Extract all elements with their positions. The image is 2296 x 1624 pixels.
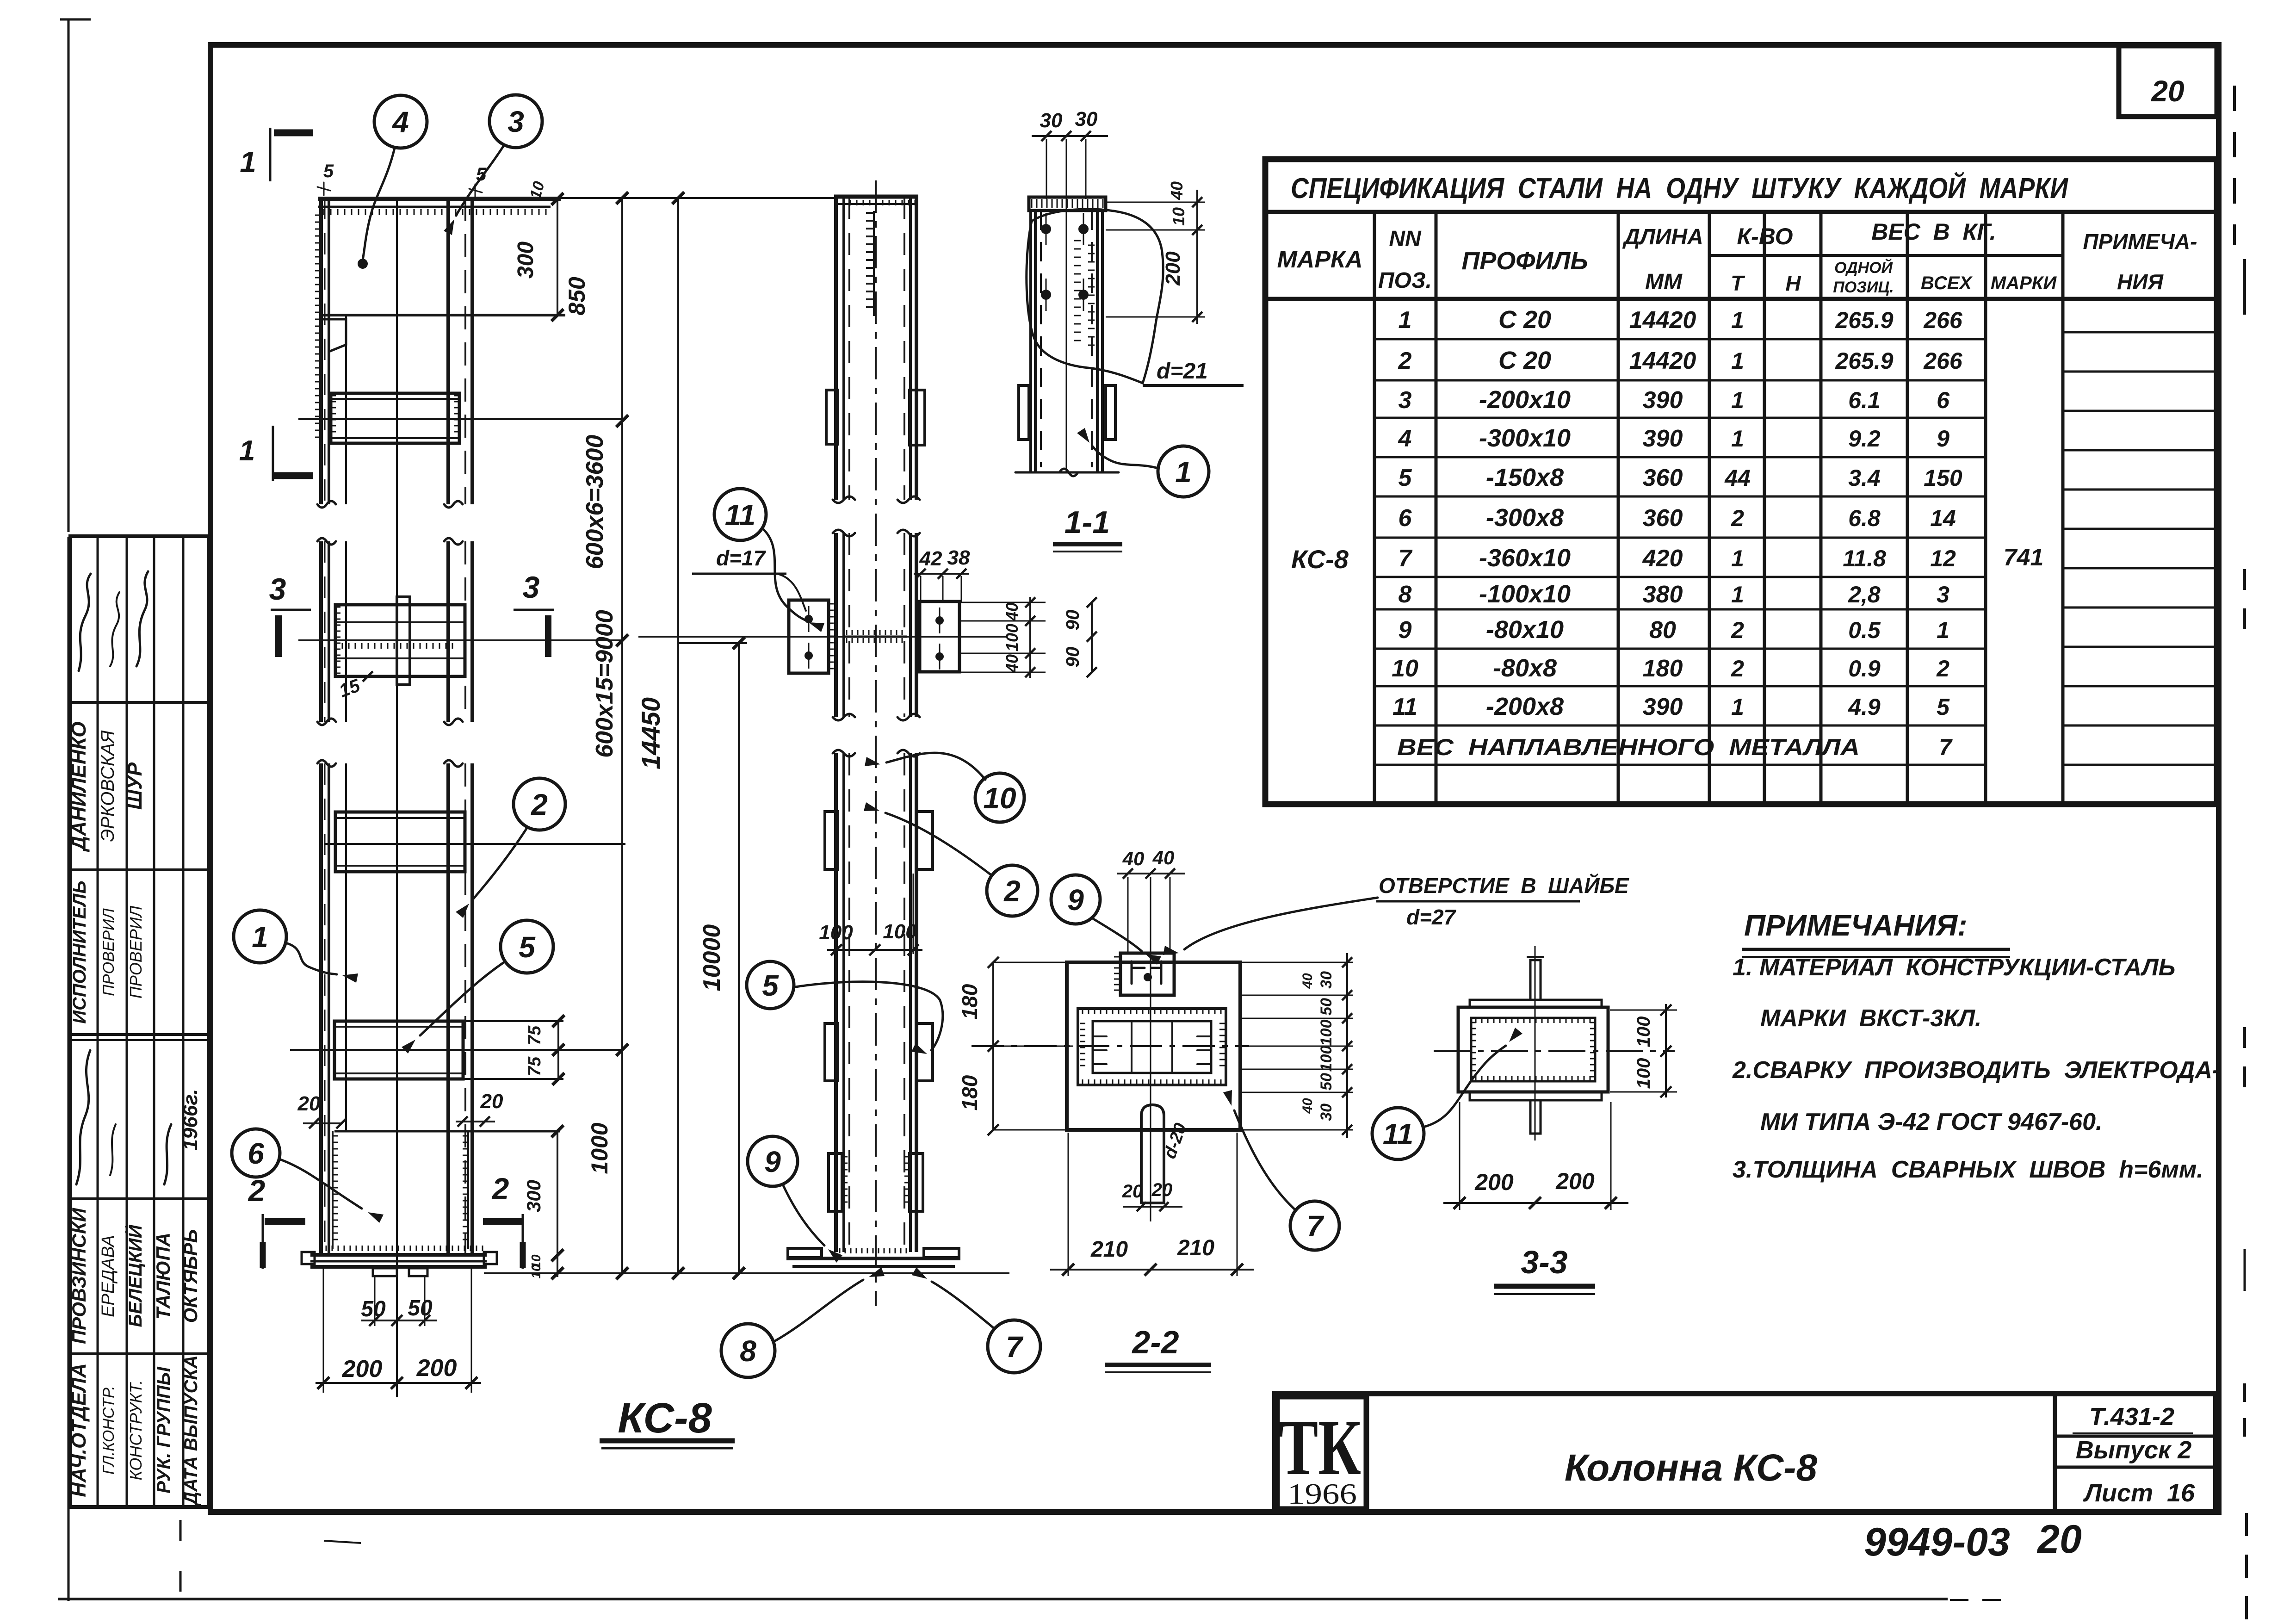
section 2-2 dimension 180 180	[958, 957, 1073, 1135]
leader 9 base	[783, 1184, 824, 1246]
svg-text:30: 30	[1040, 109, 1063, 132]
svg-text:1: 1	[252, 920, 268, 954]
leader 4	[363, 148, 395, 260]
svg-text:-100х10: -100х10	[1479, 580, 1571, 608]
svg-text:5: 5	[1399, 465, 1412, 491]
svg-text:ОТВЕРСТИЕ В ШАЙБЕ: ОТВЕРСТИЕ В ШАЙБЕ	[1379, 874, 1629, 898]
section 2-2 right dimension chain	[1242, 953, 1353, 1138]
svg-text:-360х10: -360х10	[1479, 544, 1571, 572]
svg-text:100: 100	[1634, 1017, 1654, 1048]
svg-text:1: 1	[1399, 307, 1412, 334]
svg-text:200: 200	[416, 1355, 457, 1382]
svg-text:30: 30	[1075, 108, 1098, 130]
svg-text:6.8: 6.8	[1848, 505, 1881, 531]
svg-text:МАРКИ: МАРКИ	[1991, 273, 2057, 293]
callout circle 7 (base)	[988, 1320, 1040, 1373]
section mark 2 left	[248, 1173, 305, 1269]
cap plate thickness 10	[526, 180, 548, 201]
svg-text:ДАНИЛЕНКО: ДАНИЛЕНКО	[68, 721, 90, 852]
dimension 42 38	[914, 546, 970, 602]
svg-text:К-ВО: К-ВО	[1737, 223, 1793, 249]
svg-text:180: 180	[1643, 655, 1683, 682]
leader 1	[286, 943, 337, 974]
drawing frame border	[210, 45, 2219, 1512]
svg-text:d=27: d=27	[1406, 905, 1457, 929]
section 1-1 weld blob outline	[1027, 209, 1163, 383]
svg-text:2: 2	[1731, 505, 1744, 531]
section 3-3 dimension 100 100	[1610, 1004, 1677, 1097]
callout circle 11	[714, 489, 766, 540]
svg-text:1: 1	[239, 435, 255, 467]
left elevation splice assembly A	[298, 393, 622, 443]
svg-text:5: 5	[762, 969, 779, 1002]
middle elevation base plate	[786, 1248, 960, 1266]
left elevation stiffener assembly D	[290, 1021, 622, 1079]
svg-text:1966: 1966	[1287, 1477, 1357, 1510]
svg-text:2-2: 2-2	[1131, 1324, 1179, 1360]
callout circle 2 (middle)	[987, 865, 1038, 916]
label Отверстие в шайбе d=27	[1163, 874, 1629, 955]
svg-text:1: 1	[1731, 426, 1744, 452]
callout circle 10	[975, 773, 1024, 822]
svg-text:2: 2	[1936, 656, 1949, 682]
svg-text:-200х10: -200х10	[1479, 386, 1571, 414]
weld size labels 5 at cap	[317, 161, 487, 197]
svg-text:2: 2	[1731, 617, 1744, 643]
title block grid	[1275, 1394, 2216, 1512]
svg-text:40: 40	[1167, 181, 1186, 200]
section 2-2 anchor slot	[1141, 1105, 1191, 1203]
svg-text:-300х8: -300х8	[1486, 504, 1564, 532]
svg-text:ПОЗИЦ.: ПОЗИЦ.	[1833, 279, 1894, 296]
svg-text:9: 9	[1399, 617, 1412, 644]
svg-text:20: 20	[2036, 1517, 2082, 1562]
svg-text:180: 180	[958, 1075, 982, 1110]
svg-text:-150х8: -150х8	[1486, 464, 1564, 491]
section 1-1 dimension 30 30	[1032, 108, 1108, 199]
leader 5 left	[420, 961, 505, 1035]
svg-text:НАЧ.ОТДЕЛА: НАЧ.ОТДЕЛА	[68, 1363, 90, 1497]
svg-text:НИЯ: НИЯ	[2117, 270, 2164, 294]
svg-text:75: 75	[525, 1056, 545, 1076]
svg-text:11: 11	[1392, 694, 1417, 720]
callout circle 1 (left elevation)	[234, 910, 286, 963]
svg-text:300: 300	[514, 242, 538, 279]
svg-text:200: 200	[342, 1356, 383, 1382]
svg-text:90: 90	[1063, 647, 1083, 668]
svg-text:12: 12	[1930, 545, 1956, 571]
svg-text:ГЛ.КОНСТР.: ГЛ.КОНСТР.	[100, 1386, 118, 1475]
svg-text:380: 380	[1643, 581, 1683, 608]
svg-text:266: 266	[1923, 307, 1963, 333]
svg-text:9.2: 9.2	[1848, 426, 1881, 452]
section mark 3 right	[514, 570, 554, 657]
callout circle 5 (left elevation)	[501, 920, 553, 973]
svg-text:Т: Т	[1731, 271, 1745, 295]
paper bottom edge line	[58, 1599, 2008, 1600]
svg-text:ПРОФИЛЬ: ПРОФИЛЬ	[1461, 247, 1588, 275]
svg-text:14450: 14450	[636, 697, 665, 769]
svg-text:РУК. ГРУППЫ: РУК. ГРУППЫ	[154, 1366, 174, 1493]
svg-text:40: 40	[1003, 602, 1021, 621]
left elevation bottom dimensions 20/20 50/50 200/200 10/10	[297, 1090, 503, 1393]
svg-text:9: 9	[1067, 883, 1084, 917]
svg-text:30: 30	[1318, 1103, 1335, 1121]
dimension 10000	[678, 637, 747, 1279]
callout circle 9 (base)	[748, 1136, 798, 1186]
svg-text:1-1: 1-1	[1064, 505, 1110, 540]
section 2-2 centerlines	[972, 944, 1249, 1221]
svg-text:266: 266	[1923, 348, 1963, 374]
svg-text:-80х10: -80х10	[1486, 616, 1564, 644]
middle elevation splice plates (items 10/11)	[638, 600, 1006, 673]
svg-text:-300х10: -300х10	[1479, 424, 1571, 452]
section 2-2 column section	[1078, 1009, 1226, 1085]
svg-text:3.4: 3.4	[1848, 465, 1881, 491]
svg-text:9: 9	[1937, 426, 1949, 452]
svg-text:ЭРКОВСКАЯ: ЭРКОВСКАЯ	[98, 730, 118, 842]
svg-text:1. МАТЕРИАЛ КОНСТРУКЦИИ-СТАЛЬ: 1. МАТЕРИАЛ КОНСТРУКЦИИ-СТАЛЬ	[1733, 954, 2175, 981]
svg-text:40: 40	[1300, 973, 1315, 989]
left elevation stiffener assembly C	[324, 812, 625, 872]
svg-text:80: 80	[1649, 617, 1676, 644]
left elevation column verticals	[317, 198, 472, 1397]
svg-text:3: 3	[269, 572, 286, 606]
section 2-2 base plate	[1067, 962, 1240, 1130]
svg-text:1: 1	[1937, 617, 1949, 643]
label 3-3	[1494, 1244, 1595, 1294]
svg-text:200: 200	[1162, 251, 1184, 286]
middle elevation base stiffeners (item 9)	[829, 1153, 923, 1211]
svg-text:2: 2	[1398, 347, 1412, 374]
svg-text:11.8: 11.8	[1843, 545, 1886, 571]
svg-text:6: 6	[248, 1137, 264, 1170]
callout circle 9 (splice)	[1051, 875, 1100, 924]
svg-text:420: 420	[1642, 545, 1683, 572]
callout circle 2 (left elevation)	[514, 778, 565, 830]
svg-text:1: 1	[1731, 387, 1744, 413]
svg-text:С 20: С 20	[1498, 347, 1551, 374]
svg-text:14420: 14420	[1629, 347, 1696, 374]
svg-text:40: 40	[1300, 1098, 1315, 1114]
svg-text:БЕЛЕЦКИЙ: БЕЛЕЦКИЙ	[124, 1224, 146, 1327]
svg-text:ЕРЕДАВА: ЕРЕДАВА	[99, 1235, 118, 1317]
leader 7 section	[1234, 1110, 1295, 1210]
svg-text:10: 10	[1392, 655, 1418, 682]
label 2-2	[1105, 1324, 1211, 1372]
section 2-2 dimension 20 20	[1122, 1180, 1182, 1211]
svg-text:МАРКА: МАРКА	[1277, 246, 1362, 273]
svg-text:360: 360	[1643, 505, 1683, 532]
svg-text:20: 20	[480, 1090, 503, 1113]
svg-text:3-3: 3-3	[1521, 1244, 1567, 1280]
section 3-3 dimension 200 200	[1443, 1102, 1628, 1210]
svg-text:10: 10	[983, 781, 1016, 815]
svg-text:20: 20	[1122, 1181, 1143, 1202]
svg-text:600х6=3600: 600х6=3600	[582, 435, 608, 570]
svg-text:360: 360	[1643, 465, 1683, 491]
svg-text:42: 42	[919, 547, 942, 570]
svg-text:3: 3	[1937, 582, 1949, 607]
section mark 3 left	[269, 572, 311, 657]
svg-text:5: 5	[1937, 694, 1950, 720]
section 1-1 body	[1015, 139, 1119, 476]
svg-text:ДАТА ВЫПУСКА: ДАТА ВЫПУСКА	[181, 1355, 201, 1506]
svg-text:МИ ТИПА Э-42 ГОСТ 9467-60.: МИ ТИПА Э-42 ГОСТ 9467-60.	[1760, 1109, 2102, 1135]
svg-text:180: 180	[958, 984, 982, 1019]
callout circle 11 (section 3-3)	[1372, 1108, 1424, 1159]
svg-text:40: 40	[1003, 654, 1021, 673]
middle elevation center weld strip	[866, 211, 874, 316]
left elevation base plate (items 7/8)	[302, 1252, 1009, 1276]
leader 11 section	[1423, 1046, 1506, 1127]
paper right edge dashes	[2234, 86, 2246, 1622]
label d=17	[692, 546, 806, 611]
svg-text:ПРИМЕЧАНИЯ:: ПРИМЕЧАНИЯ:	[1744, 909, 1968, 942]
svg-text:ПРИМЕЧА-: ПРИМЕЧА-	[2083, 229, 2197, 254]
svg-text:265.9: 265.9	[1835, 348, 1893, 374]
svg-text:100: 100	[883, 920, 917, 943]
svg-text:ВЕС НАПЛАВЛЕННОГО МЕТАЛЛА: ВЕС НАПЛАВЛЕННОГО МЕТАЛЛА	[1397, 734, 1860, 760]
svg-text:Колонна КС-8: Колонна КС-8	[1565, 1447, 1818, 1489]
left elevation base block (item 6)	[326, 1131, 560, 1251]
svg-text:d=17: d=17	[716, 546, 767, 570]
section 1-1 right dimensions 40 10 200	[1106, 181, 1205, 324]
svg-text:4: 4	[391, 105, 409, 139]
svg-text:5: 5	[519, 930, 536, 964]
svg-text:3: 3	[507, 105, 524, 138]
svg-text:20: 20	[1151, 1180, 1173, 1200]
svg-text:90: 90	[1063, 610, 1083, 631]
svg-text:100: 100	[1318, 1046, 1335, 1072]
svg-text:75: 75	[525, 1025, 545, 1045]
callout circle 8	[721, 1324, 775, 1377]
svg-text:Н: Н	[1785, 271, 1801, 295]
svg-text:1: 1	[240, 145, 256, 179]
svg-text:9949-03: 9949-03	[1864, 1520, 2010, 1564]
leader 7 base	[932, 1282, 995, 1329]
section mark 2 right	[483, 1172, 524, 1269]
svg-text:2: 2	[1003, 874, 1021, 908]
svg-text:1: 1	[1731, 694, 1744, 720]
svg-text:20: 20	[2151, 74, 2184, 108]
dimension 100 100	[819, 874, 922, 955]
middle elevation top cap	[834, 197, 918, 205]
svg-text:ПОЗ.: ПОЗ.	[1378, 268, 1432, 293]
middle elevation column verticals	[833, 180, 920, 1306]
svg-text:1966г.: 1966г.	[179, 1089, 202, 1150]
label 1-1	[1053, 505, 1122, 552]
svg-text:30: 30	[1318, 971, 1335, 989]
svg-text:10000: 10000	[699, 924, 725, 992]
svg-text:100: 100	[1003, 624, 1021, 651]
middle elevation upper side lugs	[826, 390, 925, 445]
callout circle 3	[489, 95, 542, 148]
svg-text:5: 5	[323, 161, 334, 181]
stray dashes below frame	[180, 1520, 361, 1592]
leader 8	[774, 1280, 863, 1342]
section mark 1 top	[240, 128, 313, 181]
page number box	[2119, 46, 2217, 117]
svg-text:1: 1	[1175, 455, 1192, 489]
leader 10	[886, 753, 985, 780]
paper left edge line	[60, 19, 91, 1601]
svg-text:100: 100	[1634, 1058, 1654, 1089]
svg-text:0.9: 0.9	[1848, 656, 1881, 682]
svg-text:11: 11	[1383, 1117, 1413, 1151]
section 2-2 dimension 40 40 top	[1117, 847, 1185, 952]
svg-text:2.СВАРКУ ПРОИЗВОДИТЬ ЭЛЕКТРО: 2.СВАРКУ ПРОИЗВОДИТЬ ЭЛЕКТРОДА-	[1732, 1057, 2220, 1084]
leader 2 middle	[885, 813, 990, 874]
svg-text:3: 3	[523, 570, 540, 604]
svg-text:50: 50	[1318, 998, 1335, 1016]
svg-text:ДЛИНА: ДЛИНА	[1622, 225, 1703, 249]
section 2-2 dimension 210 210	[1050, 1133, 1254, 1276]
svg-text:20: 20	[297, 1092, 321, 1115]
svg-text:-80х8: -80х8	[1493, 654, 1557, 682]
svg-text:ММ: ММ	[1645, 270, 1683, 294]
svg-text:50: 50	[361, 1297, 386, 1321]
svg-text:-200х8: -200х8	[1486, 693, 1564, 720]
svg-text:300: 300	[523, 1180, 545, 1212]
svg-text:100: 100	[1318, 1020, 1335, 1046]
callout circle 7 (section 2-2)	[1290, 1201, 1339, 1250]
svg-text:7: 7	[1939, 734, 1953, 760]
svg-text:10: 10	[529, 1264, 543, 1279]
leader 6	[279, 1159, 362, 1209]
svg-text:741: 741	[2004, 544, 2044, 571]
svg-text:600х15=9000: 600х15=9000	[591, 610, 618, 758]
svg-text:1000: 1000	[587, 1122, 613, 1174]
label d=21	[1143, 359, 1244, 385]
leader 2 left elevation	[473, 827, 527, 899]
svg-text:200: 200	[1474, 1169, 1514, 1195]
svg-text:2: 2	[1731, 656, 1744, 682]
svg-text:КС-8: КС-8	[618, 1395, 712, 1442]
svg-text:2,8: 2,8	[1848, 582, 1881, 607]
svg-text:1: 1	[1731, 348, 1744, 374]
document number 9949-03 20	[1864, 1517, 2082, 1564]
left elevation splice assembly B with cover plate	[298, 597, 621, 701]
svg-text:Лист 16: Лист 16	[2083, 1479, 2195, 1507]
svg-text:ПРОВЕРИЛ: ПРОВЕРИЛ	[126, 905, 145, 998]
svg-text:8: 8	[740, 1334, 756, 1368]
left signature table rotated labels	[68, 571, 202, 1506]
section mark 1 bottom	[239, 426, 313, 481]
callout circle 6	[232, 1129, 280, 1177]
svg-text:КС-8: КС-8	[1291, 545, 1349, 574]
splice right side dimensions 40 100 40 90 90	[959, 597, 1097, 678]
svg-text:МАРКИ ВКСТ-3КЛ.: МАРКИ ВКСТ-3КЛ.	[1760, 1005, 1981, 1032]
svg-text:7: 7	[1399, 545, 1413, 572]
specification table grid	[1265, 159, 2217, 804]
svg-text:38: 38	[947, 546, 970, 569]
svg-text:ШУР: ШУР	[124, 762, 146, 810]
left signature table grid	[70, 536, 209, 1507]
leader 9 splice	[1092, 918, 1142, 951]
svg-text:4: 4	[1398, 425, 1412, 452]
section 3-3 body	[1458, 957, 1608, 1134]
section 3-3 centerlines	[1434, 946, 1675, 1141]
svg-text:1: 1	[1731, 545, 1744, 571]
svg-text:ОДНОЙ: ОДНОЙ	[1834, 259, 1894, 277]
leader 11	[762, 528, 805, 620]
svg-text:NN: NN	[1389, 227, 1422, 251]
callout circle 5 (middle)	[747, 961, 794, 1009]
svg-text:44: 44	[1724, 465, 1751, 491]
svg-text:150: 150	[1924, 465, 1962, 491]
svg-text:390: 390	[1643, 387, 1683, 414]
title block text	[1565, 1403, 2195, 1507]
left elevation top cap plate (item 4)	[315, 199, 565, 437]
svg-text:10: 10	[1169, 207, 1188, 226]
svg-text:8: 8	[1399, 581, 1412, 608]
specification table text	[1277, 172, 2197, 760]
svg-text:4.9: 4.9	[1848, 694, 1881, 720]
svg-text:ТАЛЮПА: ТАЛЮПА	[152, 1233, 174, 1320]
svg-text:Т.431-2: Т.431-2	[2089, 1403, 2174, 1431]
svg-text:СПЕЦИФИКАЦИЯ СТАЛИ НА ОДНУ: СПЕЦИФИКАЦИЯ СТАЛИ НА ОДНУ ШТУКУ КАЖДОЙ …	[1291, 172, 2068, 205]
svg-text:11: 11	[725, 498, 755, 532]
svg-text:14: 14	[1930, 505, 1956, 531]
svg-text:390: 390	[1643, 425, 1683, 452]
svg-text:2: 2	[531, 788, 548, 821]
TK 1966 logo	[1278, 1397, 1366, 1510]
svg-text:7: 7	[1306, 1209, 1324, 1243]
svg-text:265.9: 265.9	[1835, 307, 1893, 333]
svg-text:210: 210	[1090, 1237, 1128, 1262]
svg-text:С 20: С 20	[1498, 306, 1551, 334]
svg-text:ВЕС В КГ.: ВЕС В КГ.	[1871, 219, 1996, 245]
svg-text:7: 7	[1006, 1330, 1024, 1364]
leader 3	[456, 145, 504, 216]
notes text	[1732, 909, 2220, 1183]
svg-text:40: 40	[1122, 848, 1145, 869]
overall dimension 14450	[474, 192, 835, 1279]
svg-text:3.ТОЛЩИНА СВАРНЫХ ШВОВ h=6м: 3.ТОЛЩИНА СВАРНЫХ ШВОВ h=6мм.	[1733, 1156, 2203, 1183]
middle elevation lower side lugs	[825, 812, 933, 1081]
leader 1 section	[1093, 446, 1158, 468]
svg-text:200: 200	[1555, 1168, 1595, 1194]
svg-text:14420: 14420	[1629, 307, 1696, 334]
callout circle 4	[374, 95, 427, 148]
svg-text:0.5: 0.5	[1848, 617, 1881, 643]
svg-text:40: 40	[1152, 847, 1175, 868]
svg-text:ПРОВЗИНСКИ: ПРОВЗИНСКИ	[68, 1208, 90, 1344]
svg-text:6.1: 6.1	[1848, 387, 1881, 413]
section 2-2 top washer (item 9)	[1114, 953, 1174, 995]
svg-text:2: 2	[491, 1172, 509, 1206]
label KC-8	[600, 1395, 735, 1448]
leader 5 middle	[796, 982, 943, 1050]
svg-text:КОНСТРУКТ.: КОНСТРУКТ.	[126, 1380, 145, 1480]
svg-text:3: 3	[1399, 387, 1412, 414]
svg-text:1: 1	[1731, 582, 1744, 607]
left elevation right dimension chain 300/850/3600/9000/1000	[514, 192, 628, 1279]
svg-text:Выпуск 2: Выпуск 2	[2076, 1436, 2192, 1464]
svg-text:210: 210	[1177, 1236, 1214, 1260]
svg-text:ПРОВЕРИЛ: ПРОВЕРИЛ	[100, 908, 118, 996]
callout circle 1 (section 1-1)	[1158, 446, 1209, 497]
svg-text:ВСЕХ: ВСЕХ	[1921, 273, 1973, 293]
svg-text:850: 850	[564, 277, 590, 316]
svg-text:50: 50	[1318, 1073, 1335, 1091]
svg-text:ОКТЯБРЬ: ОКТЯБРЬ	[179, 1229, 201, 1323]
svg-text:390: 390	[1643, 694, 1683, 720]
svg-text:9: 9	[764, 1145, 781, 1178]
svg-text:6: 6	[1937, 387, 1950, 413]
svg-text:1: 1	[1731, 307, 1744, 333]
